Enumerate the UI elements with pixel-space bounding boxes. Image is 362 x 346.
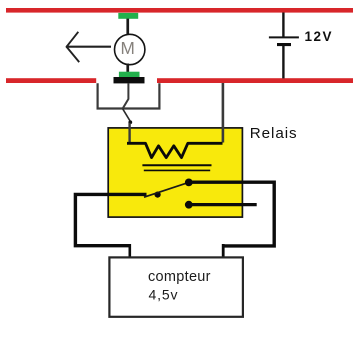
wire: +12V supply rail (top red bus) bbox=[6, 8, 353, 13]
relay K1 coil (zigzag) bbox=[127, 143, 223, 157]
wire: relay common contact wire to compteur (left loop) bbox=[75, 194, 146, 245]
battery B1: long plate (+) bbox=[269, 36, 299, 38]
svg-text:M: M bbox=[121, 38, 135, 58]
wire: relay NO contact wire to compteur (right loop) bbox=[191, 182, 274, 246]
wire: bracket loop from bottom rail under motor bbox=[98, 83, 160, 108]
svg-text:compteur: compteur bbox=[148, 269, 211, 285]
relay K1 body (yellow box) bbox=[108, 128, 242, 217]
wire: compteur right entry bbox=[222, 244, 225, 258]
node: motor bottom connector (green terminal) bbox=[119, 72, 140, 77]
node: terminal block (black bar) bbox=[114, 77, 145, 83]
compteur U1 box bbox=[109, 257, 243, 316]
wire: relay coil right lead from bottom rail bbox=[222, 83, 225, 143]
wire: 0V supply rail right segment (bottom red bus) bbox=[157, 78, 353, 83]
switch S1 lever (to relay coil) bbox=[123, 109, 131, 122]
switch: relay contact lever bbox=[144, 183, 188, 197]
battery B1: bottom lead bbox=[282, 46, 284, 78]
node: relay NC contact dot bbox=[185, 201, 193, 209]
svg-text:4,5v: 4,5v bbox=[149, 287, 178, 303]
svg-text:12V: 12V bbox=[305, 29, 332, 44]
battery B1: top lead bbox=[282, 13, 284, 38]
svg-text:Relais: Relais bbox=[250, 125, 297, 142]
relay K1 core line upper bbox=[142, 164, 211, 166]
wire: compteur left entry bbox=[129, 244, 132, 258]
wire: 0V supply rail left segment (bottom red bus) bbox=[6, 78, 96, 83]
wire: switch feed from terminal block bbox=[123, 83, 129, 108]
relay K1 core line lower bbox=[144, 169, 210, 171]
node: motor top connector (green terminal) bbox=[118, 13, 138, 19]
motor M1 (circle) bbox=[115, 34, 145, 64]
wire: relay NC contact stub bbox=[191, 203, 257, 206]
wire: motor top lead bbox=[126, 19, 129, 35]
node: relay common contact dot bbox=[155, 192, 161, 198]
wire: relay coil left lead bbox=[128, 123, 130, 144]
switch S1 contact dot bbox=[128, 120, 132, 124]
wire: motor bottom lead bbox=[126, 64, 129, 73]
arrow: rotation direction (points left) bbox=[66, 32, 111, 62]
battery B1: short plate (-) bbox=[277, 43, 291, 46]
node: relay NO contact dot bbox=[185, 179, 193, 187]
